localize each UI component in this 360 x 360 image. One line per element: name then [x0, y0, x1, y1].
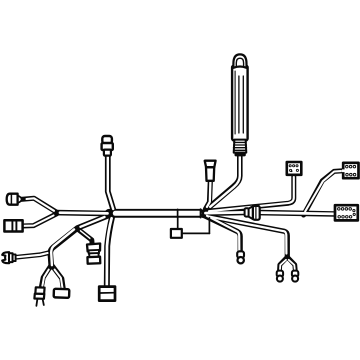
trunk end cap — [200, 209, 202, 217]
wire W3 black: Y junction to main junction — [56, 213, 111, 214]
wire W6 black: main junction down to connector C15 — [107, 215, 113, 288]
wire W16 white core — [305, 171, 343, 212]
wire W18 black: hub to single ring terminal — [203, 215, 241, 252]
wire W11 white core — [55, 270, 63, 289]
wire W8 black: branch to grommet component — [77, 229, 92, 246]
wire W13 white core — [207, 182, 211, 207]
wire W7 white cores — [81, 217, 105, 227]
wire W2 black: connector T2 to Y junction — [22, 214, 57, 226]
wire W8 white core — [81, 231, 91, 239]
connector A (square plug, wire down) — [287, 162, 302, 175]
wire W10 black: stem split left to spade connector — [42, 266, 52, 287]
wire W2 white core — [24, 216, 54, 226]
connector T1 (top-left bullet connector) — [102, 136, 113, 156]
wire W3 white core — [60, 211, 108, 214]
wire W17 black: hub to paired ring terminals — [204, 216, 288, 259]
wire W4 black: main trunk — [109, 209, 201, 218]
wire W9 white core — [17, 253, 48, 257]
wire W10 white core — [42, 270, 48, 286]
wire W9 black: bend to fork terminal — [16, 252, 51, 257]
wire W12 white core — [210, 157, 240, 207]
wire W14 black: hub to connector A — [205, 176, 294, 212]
wire W1 white core — [27, 198, 55, 211]
single ring terminal — [237, 251, 244, 263]
trunk divider line — [177, 209, 179, 217]
wire W7 black: main junction diagonal to lower-left bend and stem — [50, 215, 111, 267]
connector B (top-right plug) — [342, 163, 359, 178]
wire W6 white core — [107, 218, 112, 287]
grommet stacked component — [87, 243, 101, 263]
small rect connector (bottom-left cluster) — [54, 289, 70, 298]
cylinder (capsule component) — [232, 54, 248, 155]
wire W11 black: stem split right to small rect connector — [52, 266, 63, 290]
connector T3 (left 3-cell rectangular connector) — [4, 220, 22, 231]
connector C3 (small plug above hub) — [205, 161, 216, 181]
wire W17 white cores — [209, 217, 287, 254]
wire W15 black: hub to barrel to connector C — [201, 209, 245, 216]
wire W12 black: hub up to cylinder — [207, 156, 240, 210]
wire W5 black: top connector down to main junction — [108, 155, 114, 213]
bracket under trunk — [178, 218, 210, 234]
fork terminal (left) — [2, 252, 15, 263]
wire W15 white cores — [206, 211, 244, 215]
grommet component stub — [90, 240, 94, 246]
wire W16 black: connector B diagonal down to horizontal run — [304, 171, 344, 215]
paired ring terminals — [277, 271, 299, 282]
wire W1 black: connector T1 to Y junction — [20, 198, 58, 213]
barrel connector (inline on hub-to-C wire) — [245, 206, 260, 220]
connector C (right plug, horizontal wire) — [335, 205, 358, 220]
wire W13 black: hub up to small connector C3 — [206, 182, 211, 210]
wire W18 white core — [207, 216, 239, 252]
hub black wedge at trunk end — [201, 210, 207, 218]
connector T2 (left bullet with divider) — [7, 194, 22, 205]
cylinder ribbed neck — [234, 140, 247, 153]
bracket flag square — [171, 229, 182, 238]
spade connector (bottom-left, prongs down) — [34, 287, 44, 306]
wire W14 white core — [209, 177, 294, 211]
wire W5 white core — [108, 156, 113, 210]
wire W4 white core (trunk interior) — [115, 211, 199, 216]
connector C15 (bottom, on long vertical wire) — [99, 287, 115, 301]
